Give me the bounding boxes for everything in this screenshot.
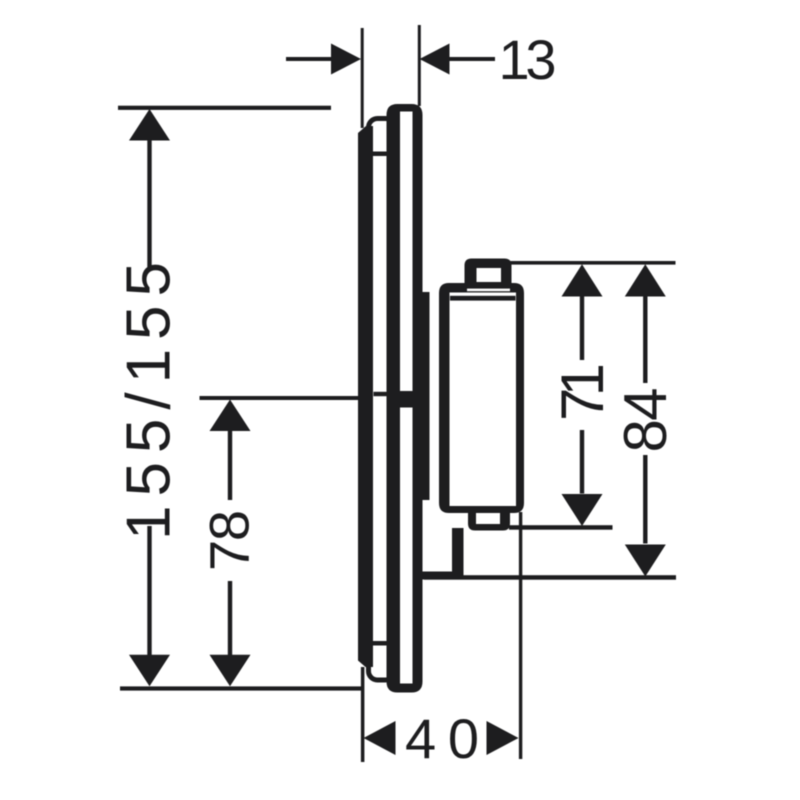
ext line top-left (155 top) (118, 106, 331, 110)
carrier divider top (371, 152, 389, 157)
valve body joint band (396, 391, 416, 408)
dim 71 line lower (580, 430, 584, 494)
dim 155 arrow up (129, 109, 170, 141)
dim 71 arrow up (562, 264, 603, 296)
dim 78 arrow up (210, 400, 251, 432)
ext line 40 right vertical (519, 512, 522, 759)
carrier divider bottom (371, 641, 389, 646)
carrier divider middle (374, 392, 390, 396)
knob face line (450, 296, 516, 301)
stem vertical bar (452, 528, 464, 574)
carrier plate outline (369, 119, 395, 681)
ext line 13 left vertical (361, 28, 364, 128)
wall plate (escutcheon side profile) (358, 126, 373, 667)
ext line 13 right vertical (418, 25, 421, 106)
valve body (387, 104, 423, 693)
dim 84 arrow down (625, 545, 666, 577)
svg-text:71: 71 (549, 363, 616, 421)
dim 155 line upper (147, 139, 151, 270)
dim 155 line lower (147, 526, 151, 656)
dim 13 left tail (286, 57, 332, 61)
dim 84 arrow up (625, 264, 666, 296)
dim 71 arrow down (562, 494, 603, 526)
dim 13 right tail (448, 57, 495, 61)
highlight sliver under top button (467, 289, 510, 292)
dim 78 line lower (228, 581, 232, 656)
svg-text:13: 13 (499, 28, 557, 91)
dim 78 arrow down (210, 655, 251, 687)
svg-text:40: 40 (405, 707, 479, 770)
ext line stem bottom (84 bottom) (424, 575, 676, 580)
dim 40 left arrowhead (364, 721, 396, 755)
ext line bottom-left (155/78 bottom) (120, 686, 362, 690)
ext line mid-left (78 top) (200, 396, 359, 400)
bottom button (468, 512, 510, 531)
dim 84 line lower (643, 455, 647, 544)
stem bottom bar (422, 572, 464, 580)
svg-text:84: 84 (612, 388, 679, 453)
ext line 40 left vertical (361, 667, 365, 762)
handle knob (439, 283, 524, 513)
ext line knob bottom (71 bottom) (509, 525, 613, 530)
dim 13 left arrowhead (331, 44, 361, 75)
svg-text:78: 78 (198, 510, 261, 571)
dim 40 right arrowhead (487, 721, 519, 755)
dim 13 right arrowhead (420, 44, 450, 75)
dim 155 arrow down (129, 655, 170, 687)
ext line button top (71/84 top) (508, 261, 676, 265)
top button (465, 259, 512, 290)
knob collar (422, 292, 430, 500)
svg-text:155/155: 155/155 (115, 262, 184, 540)
dim 71 line upper (580, 296, 584, 361)
dim 84 line upper (643, 296, 647, 384)
dim 78 line upper (228, 430, 232, 500)
